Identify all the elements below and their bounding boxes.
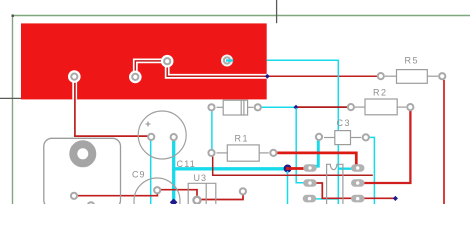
pad R1 right bbox=[270, 150, 276, 156]
pad R2 left bbox=[348, 104, 354, 110]
wire bottom C10 left pad to R1 left pad bbox=[211, 111, 213, 149]
svg-text:C9: C9 bbox=[132, 170, 146, 180]
pad U2-1 bbox=[303, 164, 317, 172]
pad B in pour bbox=[161, 55, 174, 68]
wire top bottom-left pad to U3 pad and right pad bbox=[78, 190, 243, 200]
wire top U2 pad5 to R2 right pad bbox=[360, 111, 410, 184]
capacitor C10 body bbox=[217, 100, 254, 115]
copper pour top layer bbox=[21, 23, 267, 99]
svg-text:C11: C11 bbox=[177, 159, 196, 169]
connector J1 outline bbox=[44, 138, 121, 208]
pad A in pour bbox=[129, 71, 142, 84]
wire pour to R5 left pad bbox=[267, 75, 377, 77]
pad U2-6 bbox=[351, 195, 365, 203]
wire bottom C4 left pad down bbox=[150, 140, 152, 204]
svg-text:R1: R1 bbox=[235, 134, 250, 144]
svg-text:C3: C3 bbox=[337, 118, 352, 128]
pad U3-1 bbox=[194, 197, 201, 204]
svg-text:U3: U3 bbox=[194, 173, 208, 183]
IC U2 body bbox=[327, 164, 343, 204]
plus mark bbox=[146, 122, 151, 127]
wire top R1 left pad down and right bbox=[213, 157, 373, 176]
pad C4 left bbox=[148, 134, 154, 140]
wire bottom thick C4 right pad down to edge bbox=[172, 169, 175, 204]
dim line left bbox=[0, 97, 21, 99]
wire bottom C3 left pad down to U2 pad1 bbox=[311, 140, 319, 166]
via junction bbox=[293, 105, 298, 110]
via at pour edge bbox=[265, 74, 270, 79]
wire pour pad1 to C4 pad bbox=[75, 80, 151, 136]
pad C3 left bbox=[316, 134, 322, 140]
wire bottom layer pour edge to C3 column bbox=[267, 60, 339, 204]
pad U2-2 bbox=[303, 179, 317, 187]
wire bottom C3 right pad down bbox=[366, 137, 375, 204]
pad J1-2 bbox=[88, 202, 94, 208]
wire pad A - pad B in pour bbox=[135, 61, 266, 77]
capacitor C9 circle bbox=[134, 178, 180, 224]
pad U2-3 bbox=[303, 195, 317, 203]
dim line top bbox=[276, 0, 278, 23]
mounting hole donut bbox=[73, 144, 92, 163]
capacitor C3 bbox=[324, 131, 361, 145]
via end bbox=[393, 196, 398, 201]
pad R1 left bbox=[208, 150, 214, 156]
resistor R2 bbox=[355, 99, 406, 115]
svg-text:R5: R5 bbox=[405, 56, 420, 66]
wire top R5 right pad down bbox=[443, 80, 445, 204]
via C in pour (bottom layer) bbox=[221, 55, 233, 67]
pad U2-4 bbox=[351, 164, 365, 172]
capacitor C4 circle bbox=[138, 111, 186, 159]
wire bottom U2 pad6 left bbox=[311, 198, 338, 200]
pad U2-5 bbox=[351, 179, 365, 187]
pad R5 left bbox=[378, 73, 384, 79]
pad R2 right bbox=[407, 104, 413, 110]
wire bottom C10 right pad to via bbox=[262, 106, 295, 108]
wire top U2 pad2 to bottom run bbox=[311, 183, 395, 198]
pad C3 right bbox=[363, 134, 369, 140]
board outline (green) bbox=[13, 16, 470, 205]
wire bottom stub to U2 pad4 bbox=[338, 168, 357, 170]
wire bottom via down to U2 pad2 bbox=[296, 108, 309, 183]
pad C9 bbox=[154, 187, 160, 193]
pad C10 left bbox=[208, 104, 214, 110]
svg-text:R2: R2 bbox=[373, 88, 388, 98]
navy junction on thick cyan at bottom bbox=[170, 198, 178, 206]
wire bottom thick C4 right pad down and right bbox=[174, 140, 288, 169]
pad C10 right bbox=[255, 104, 261, 110]
wire bottom via down bbox=[287, 171, 289, 204]
pad J1-1 bbox=[71, 193, 77, 199]
clearance channel pad A to pad B bbox=[135, 61, 266, 77]
pad near U3 bbox=[240, 188, 246, 194]
resistor R5 bbox=[385, 70, 438, 84]
pad P1 in pour bbox=[68, 70, 81, 83]
via ring bbox=[285, 166, 291, 172]
wire top via to U2 pad1 bbox=[290, 167, 312, 170]
wire top via to R2 left pad bbox=[298, 106, 348, 108]
pad C4 right bbox=[171, 134, 177, 140]
board outline corner dot bbox=[12, 15, 14, 17]
clearance channel pad1 down bbox=[72, 77, 77, 100]
wire top R1 right pad to U2 pad4 bbox=[277, 153, 356, 167]
pad R5 right bbox=[439, 73, 445, 79]
resistor R1 bbox=[217, 145, 269, 161]
U3 box bbox=[188, 183, 216, 204]
